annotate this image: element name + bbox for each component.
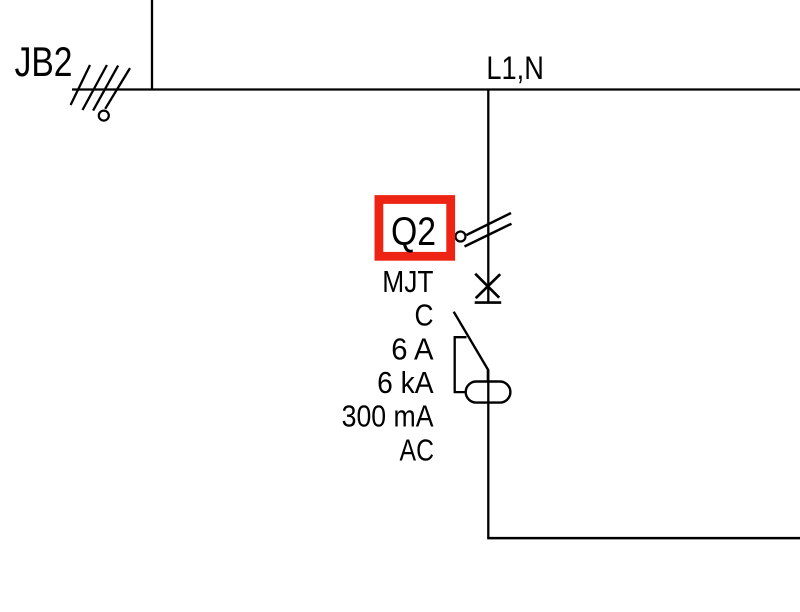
svg-text:JB2: JB2 (15, 40, 73, 86)
wire: bottom horizontal outgoing (487, 537, 800, 540)
svg-text:300 mA: 300 mA (342, 400, 435, 434)
svg-text:L1,N: L1,N (486, 51, 543, 87)
svg-text:6 kA: 6 kA (377, 366, 434, 401)
breaker function bar under X (475, 301, 502, 304)
wire: top horizontal bus L1,N (72, 88, 800, 90)
svg-text:MJT: MJT (382, 265, 433, 299)
svg-text:Q2: Q2 (391, 208, 436, 253)
breaker function X mark (475, 274, 500, 299)
JB2 terminal circle (99, 111, 109, 121)
breaker Q2 switch blade (double diagonal) (465, 213, 512, 247)
junction box JB2 hatch slashes (71, 65, 130, 111)
svg-text:6 A: 6 A (391, 333, 434, 367)
wire: vertical branch from bus down to breaker (487, 90, 489, 303)
breaker Q2 pivot circle (456, 232, 466, 242)
RCD contact blade (454, 312, 488, 381)
wire: vertical through toroid down to bottom bus (487, 370, 489, 539)
wire: incoming vertical feeder at top left (151, 0, 153, 90)
selection highlight box around Q2 (379, 200, 451, 257)
svg-text:AC: AC (400, 433, 434, 467)
svg-text:C: C (414, 299, 433, 333)
RCD mechanism bracket (455, 337, 467, 392)
RCD sensing toroid (pill) (466, 382, 511, 403)
